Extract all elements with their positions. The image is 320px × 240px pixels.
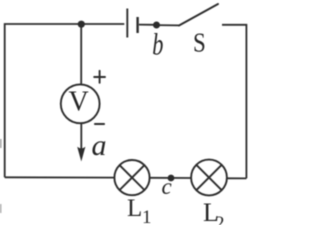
- svg-text:1: 1: [142, 207, 152, 225]
- voltmeter minus sign: [95, 123, 104, 125]
- svg-text:V: V: [69, 87, 89, 118]
- svg-text:a: a: [92, 129, 107, 162]
- svg-text:b: b: [152, 27, 163, 61]
- voltmeter U1 circle: [61, 84, 100, 123]
- wire between L1 and L2 through node c: [150, 177, 192, 179]
- svg-text:S: S: [193, 29, 206, 58]
- svg-text:c: c: [162, 174, 172, 199]
- node c dot: [168, 175, 175, 182]
- wire voltmeter lower lead: [80, 124, 82, 152]
- battery long plate: [126, 9, 128, 38]
- scan smudge left edge upper: [0, 139, 2, 148]
- lamp L1: [114, 160, 149, 195]
- lamp L2: [191, 160, 227, 196]
- scan smudge left edge lower: [0, 204, 1, 213]
- voltmeter plus sign: [94, 71, 105, 83]
- wire L2 to bottom right corner: [227, 177, 246, 179]
- battery short plate: [136, 17, 138, 33]
- wire left and top segment to battery: [5, 24, 125, 177]
- svg-text:L: L: [127, 195, 142, 222]
- wire node b to switch pivot: [157, 24, 179, 26]
- arrow head at a: [77, 147, 85, 162]
- node b junction dot: [153, 22, 160, 29]
- wire voltmeter branch upper lead: [80, 24, 82, 84]
- svg-text:2: 2: [215, 213, 225, 225]
- switch S blade: [179, 4, 218, 26]
- wire switch contact to right corner and down: [222, 25, 246, 179]
- junction dot at voltmeter tap: [78, 21, 85, 28]
- wire battery to node b: [139, 24, 156, 26]
- wire bottom left to lamp L1: [5, 176, 115, 178]
